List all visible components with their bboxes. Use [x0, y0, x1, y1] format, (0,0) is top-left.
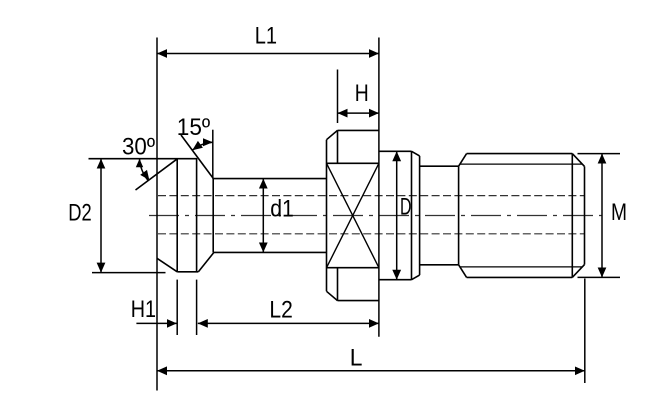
dimension M bottom extension line — [578, 276, 621, 278]
cylinder D top-right chamfer — [412, 151, 420, 156]
H1 extension line left — [176, 280, 178, 335]
flange bottom tab chamfer-plane vertical — [337, 268, 339, 301]
dimension D line — [396, 151, 398, 279]
cylinder D bottom edge — [379, 279, 412, 281]
thread left edge — [458, 166, 460, 265]
dimension L1 line — [157, 53, 379, 55]
thread top edge — [467, 153, 573, 155]
flange bottom tab chamfer — [327, 291, 338, 300]
centerline — [149, 215, 602, 217]
head inner vertical 1 — [176, 159, 178, 272]
thread bottom edge — [467, 276, 573, 278]
thread bottom-left chamfer — [459, 265, 467, 278]
thread minor diameter line bottom — [460, 266, 583, 268]
cylinder D chamfer-plane vertical — [411, 151, 413, 279]
head bottom 15-deg taper — [198, 252, 214, 271]
svg-text:H: H — [355, 80, 369, 107]
cylinder D top edge — [379, 150, 412, 152]
flange top tab chamfer — [327, 130, 338, 139]
15-deg extension vertical — [212, 130, 214, 179]
groove box bottom edge — [327, 267, 379, 269]
cylinder D right edge — [419, 156, 421, 275]
dimension D2 bottom extension line — [92, 272, 166, 274]
flange left edge — [326, 140, 328, 292]
dimension M line — [601, 154, 603, 278]
groove box diagonal 2 — [327, 163, 379, 267]
relief neck bottom edge — [420, 264, 459, 266]
head bottom edge — [177, 271, 198, 273]
head top edge with D2 top extension — [89, 158, 198, 160]
30-deg arc arrow lower — [140, 170, 149, 180]
thread minor diameter line top — [460, 163, 583, 165]
dimension M top extension line — [578, 153, 621, 155]
dimension D2 line — [100, 159, 102, 273]
dimension L line — [157, 370, 585, 372]
head inner vertical 2 — [196, 159, 198, 272]
neck d1 bottom edge — [214, 251, 327, 253]
30-deg angle arc — [140, 159, 149, 181]
30-deg arc arrow up — [136, 159, 143, 168]
hidden-diameter dashed line top — [158, 195, 584, 197]
svg-text:L2: L2 — [269, 297, 292, 324]
dimension L2 line — [198, 322, 379, 324]
dimension H line — [338, 112, 379, 114]
svg-text:D: D — [400, 194, 411, 221]
cylinder D bottom-right chamfer — [412, 275, 420, 280]
svg-text:d1: d1 — [270, 195, 294, 222]
neck d1 top edge — [213, 178, 326, 180]
15-deg arc arrow left — [192, 141, 203, 150]
thread top-left chamfer — [459, 154, 467, 167]
H1-L2 extension line — [196, 280, 198, 335]
flange top tab top edge — [338, 129, 379, 131]
svg-text:H1: H1 — [131, 296, 156, 323]
flange top tab chamfer-plane vertical — [337, 130, 339, 163]
head left face / L1-H1-L extension line — [156, 38, 158, 391]
flange bottom tab bottom edge — [338, 300, 379, 302]
svg-text:M: M — [611, 199, 627, 226]
svg-text:L1: L1 — [255, 22, 277, 49]
groove box diagonal 1 — [327, 163, 379, 267]
svg-text:L: L — [350, 345, 363, 372]
flange right face / L1-H-L2 extension line — [378, 38, 380, 337]
dimension L right extension line — [584, 279, 586, 384]
30-deg reference slant line — [136, 159, 178, 190]
svg-text:D2: D2 — [68, 199, 91, 226]
groove box top edge — [327, 162, 379, 164]
head top 15-deg taper line extended — [181, 135, 213, 179]
thread end chamfer-plane vertical — [571, 154, 573, 278]
dimension H1 line — [136, 322, 176, 324]
thread bottom-right chamfer — [572, 265, 584, 278]
head bottom-left chamfer — [157, 258, 177, 272]
taper-neck junction vertical — [212, 179, 214, 253]
hidden-diameter dashed line bottom — [158, 233, 584, 235]
15-deg arc arrow right — [203, 138, 213, 146]
svg-text:30º: 30º — [122, 134, 155, 161]
15-deg angle arc — [192, 142, 213, 150]
dimension d1 line — [262, 179, 264, 253]
thread right end edge — [584, 166, 586, 264]
svg-text:15º: 15º — [177, 114, 211, 141]
dimension H extension line — [337, 70, 339, 124]
relief neck top edge — [420, 165, 459, 167]
thread top-right chamfer — [572, 154, 584, 167]
